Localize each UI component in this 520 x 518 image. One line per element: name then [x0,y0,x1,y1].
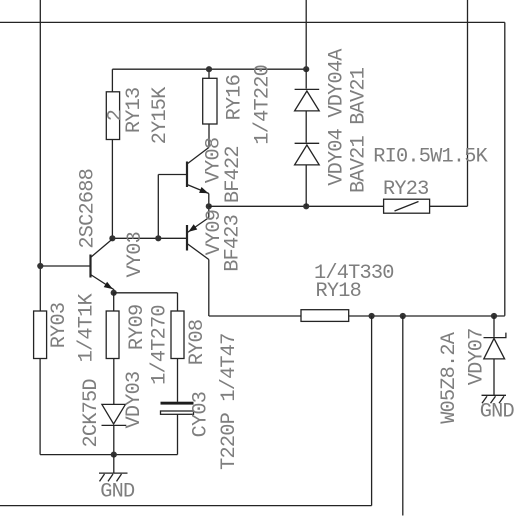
svg-text:BF422: BF422 [222,146,245,203]
diode VDY07 triangle [484,338,505,359]
wire: vertical from top down to RY23 [467,0,469,206]
wire: emitter node rail [114,292,178,294]
node: junction VY03 emitter [111,290,117,296]
resistor RY23 slash [395,202,419,212]
diode VDY03 cathode bar [102,424,127,426]
diode VDY07 cathode bar (zener) [484,333,506,338]
transistor VY03 base bar [89,255,91,278]
wire: RY08 bottom lead [177,359,179,402]
svg-text:2Y15K: 2Y15K [149,86,172,144]
diode VDY04A triangle [295,91,320,111]
wire: top rail [112,68,306,70]
svg-text:RY03: RY03 [48,303,71,348]
resistor RY09 [106,311,119,359]
wire: RY13 top lead [111,69,113,92]
wire: bottom mid rail right [349,315,505,317]
wire: RY16 bottom lead [208,124,210,148]
wire: vertical from top into diode string node [305,0,307,69]
ground: hatch left [99,473,128,481]
wire: RY16 top lead [208,69,210,78]
svg-text:VDY07: VDY07 [466,328,489,385]
svg-text:T220P 1/4T47: T220P 1/4T47 [218,333,241,469]
wire: VY03 collector [91,239,113,258]
wire: RY13 bottom lead down to base bus [111,140,113,239]
wire: drop to bottom rail [371,316,373,506]
svg-text:2SC2688: 2SC2688 [77,169,100,249]
svg-text:1/4T270: 1/4T270 [148,305,171,385]
resistor RY18 [301,310,349,322]
wire: VY09 collector [187,244,209,260]
wire: RY09 top lead [113,293,115,311]
svg-text:RY13: RY13 [123,88,146,133]
wire: emitter rail to RY23 [209,205,384,207]
wire: VDY07 top lead [493,316,495,337]
svg-text:W05Z8.2A: W05Z8.2A [438,331,461,424]
svg-text:RY18: RY18 [316,280,361,303]
wire: bottom mid rail left [209,315,301,317]
wire: VDY03 bottom lead [113,426,115,455]
ground: hatch right [482,395,507,403]
wire: left vertical to VY03 base node [39,0,41,266]
capacitor CY03 bottom plate [161,411,194,414]
arrow: VY09 emitter (PNP, points to bar) [188,224,197,232]
wire: VY09 emitter diagonal [188,218,209,233]
svg-text:RI0.5W1.5K: RI0.5W1.5K [373,146,488,169]
transistor VY08 base bar [186,162,188,188]
diode VDY03 triangle [102,404,126,424]
wire: diode string segment middle [305,111,307,143]
diode VDY04 cathode bar [295,142,320,144]
wire: left vertical from base node down to RY03 [39,266,41,311]
svg-text:RY23: RY23 [383,178,428,201]
transistor VY09 base bar [186,225,188,251]
wire: bottom horizontal rail [0,505,372,507]
wire: VY08 base wire [158,174,187,176]
wire: VY08 emitter diagonal [187,185,209,194]
wire: drop to bottom edge [402,316,404,516]
wire: RY03 bottom lead [39,359,41,455]
node: junction diode string bottom [303,203,309,209]
svg-text:VDY04 VDY04A: VDY04 VDY04A [326,48,349,186]
diode VDY04A cathode bar [295,88,320,90]
svg-text:VDY03: VDY03 [123,372,146,429]
svg-text:GND: GND [480,401,515,424]
wire: VY09 emitter stub [208,206,210,217]
wire: right vertical bus [504,22,506,315]
svg-text:VY03: VY03 [124,232,147,277]
svg-text:CY03: CY03 [189,392,212,437]
wire: diode string segment top [305,69,307,88]
wire: VY08 emitter stub [208,194,210,207]
wire: RY08 top lead [177,293,179,311]
wire: VY08 collector [187,148,209,165]
wire: VY08 base branch down to base bus [157,175,159,239]
wire: base bus VY03 collector to VY09 base [112,237,187,239]
svg-text:GND: GND [100,480,135,503]
node: junction ground [111,452,117,458]
node: junction VY03 base [37,263,43,269]
svg-text:RY16: RY16 [224,75,247,120]
wire: top horizontal bus [0,21,505,23]
arrow: VY03 emitter (NPN) [104,282,113,289]
node: junction emitters [206,203,212,209]
node: junction drop 2 [400,313,406,319]
arrow: VY08 emitter (NPN) [199,187,208,193]
node: junction diode string top [303,66,309,72]
wire: GND stub [113,455,115,474]
wire: VDY07 bottom lead [493,359,495,395]
svg-text:1/4T220: 1/4T220 [252,65,275,145]
wire: RY09 bottom lead [113,359,115,405]
svg-text:1/4T1K: 1/4T1K [76,293,99,363]
svg-text:BAV21 BAV21: BAV21 BAV21 [348,67,371,193]
svg-text:RY09: RY09 [126,305,149,350]
wire: RY23 right lead [430,205,468,207]
resistor RY08 [171,311,184,359]
svg-text:2CK75D: 2CK75D [80,379,103,448]
node: junction RY16 top [206,66,212,72]
resistor RY13 [106,92,119,140]
resistor RY23 body [384,199,430,213]
wire: CY03 bottom lead [177,414,179,454]
wire: VY09 collector drop [208,260,210,317]
wire: diode string segment bottom [305,165,307,206]
svg-text:BF423: BF423 [221,215,244,272]
svg-text:RY08: RY08 [186,320,209,365]
diode VDY04 triangle [295,145,320,165]
node: junction drop 1 [369,313,375,319]
capacitor CY03 top plate [161,402,194,405]
node: junction VDY07 [491,313,497,319]
node: junction VY08 base branch [155,235,161,241]
wire: VY03 base wire [40,265,90,267]
resistor RY03 [34,311,47,359]
node: junction RY13/base bus [109,235,115,241]
wire: bottom-left rail [40,454,177,456]
resistor RY16 [203,78,217,124]
wire: VY03 emitter [91,275,114,293]
